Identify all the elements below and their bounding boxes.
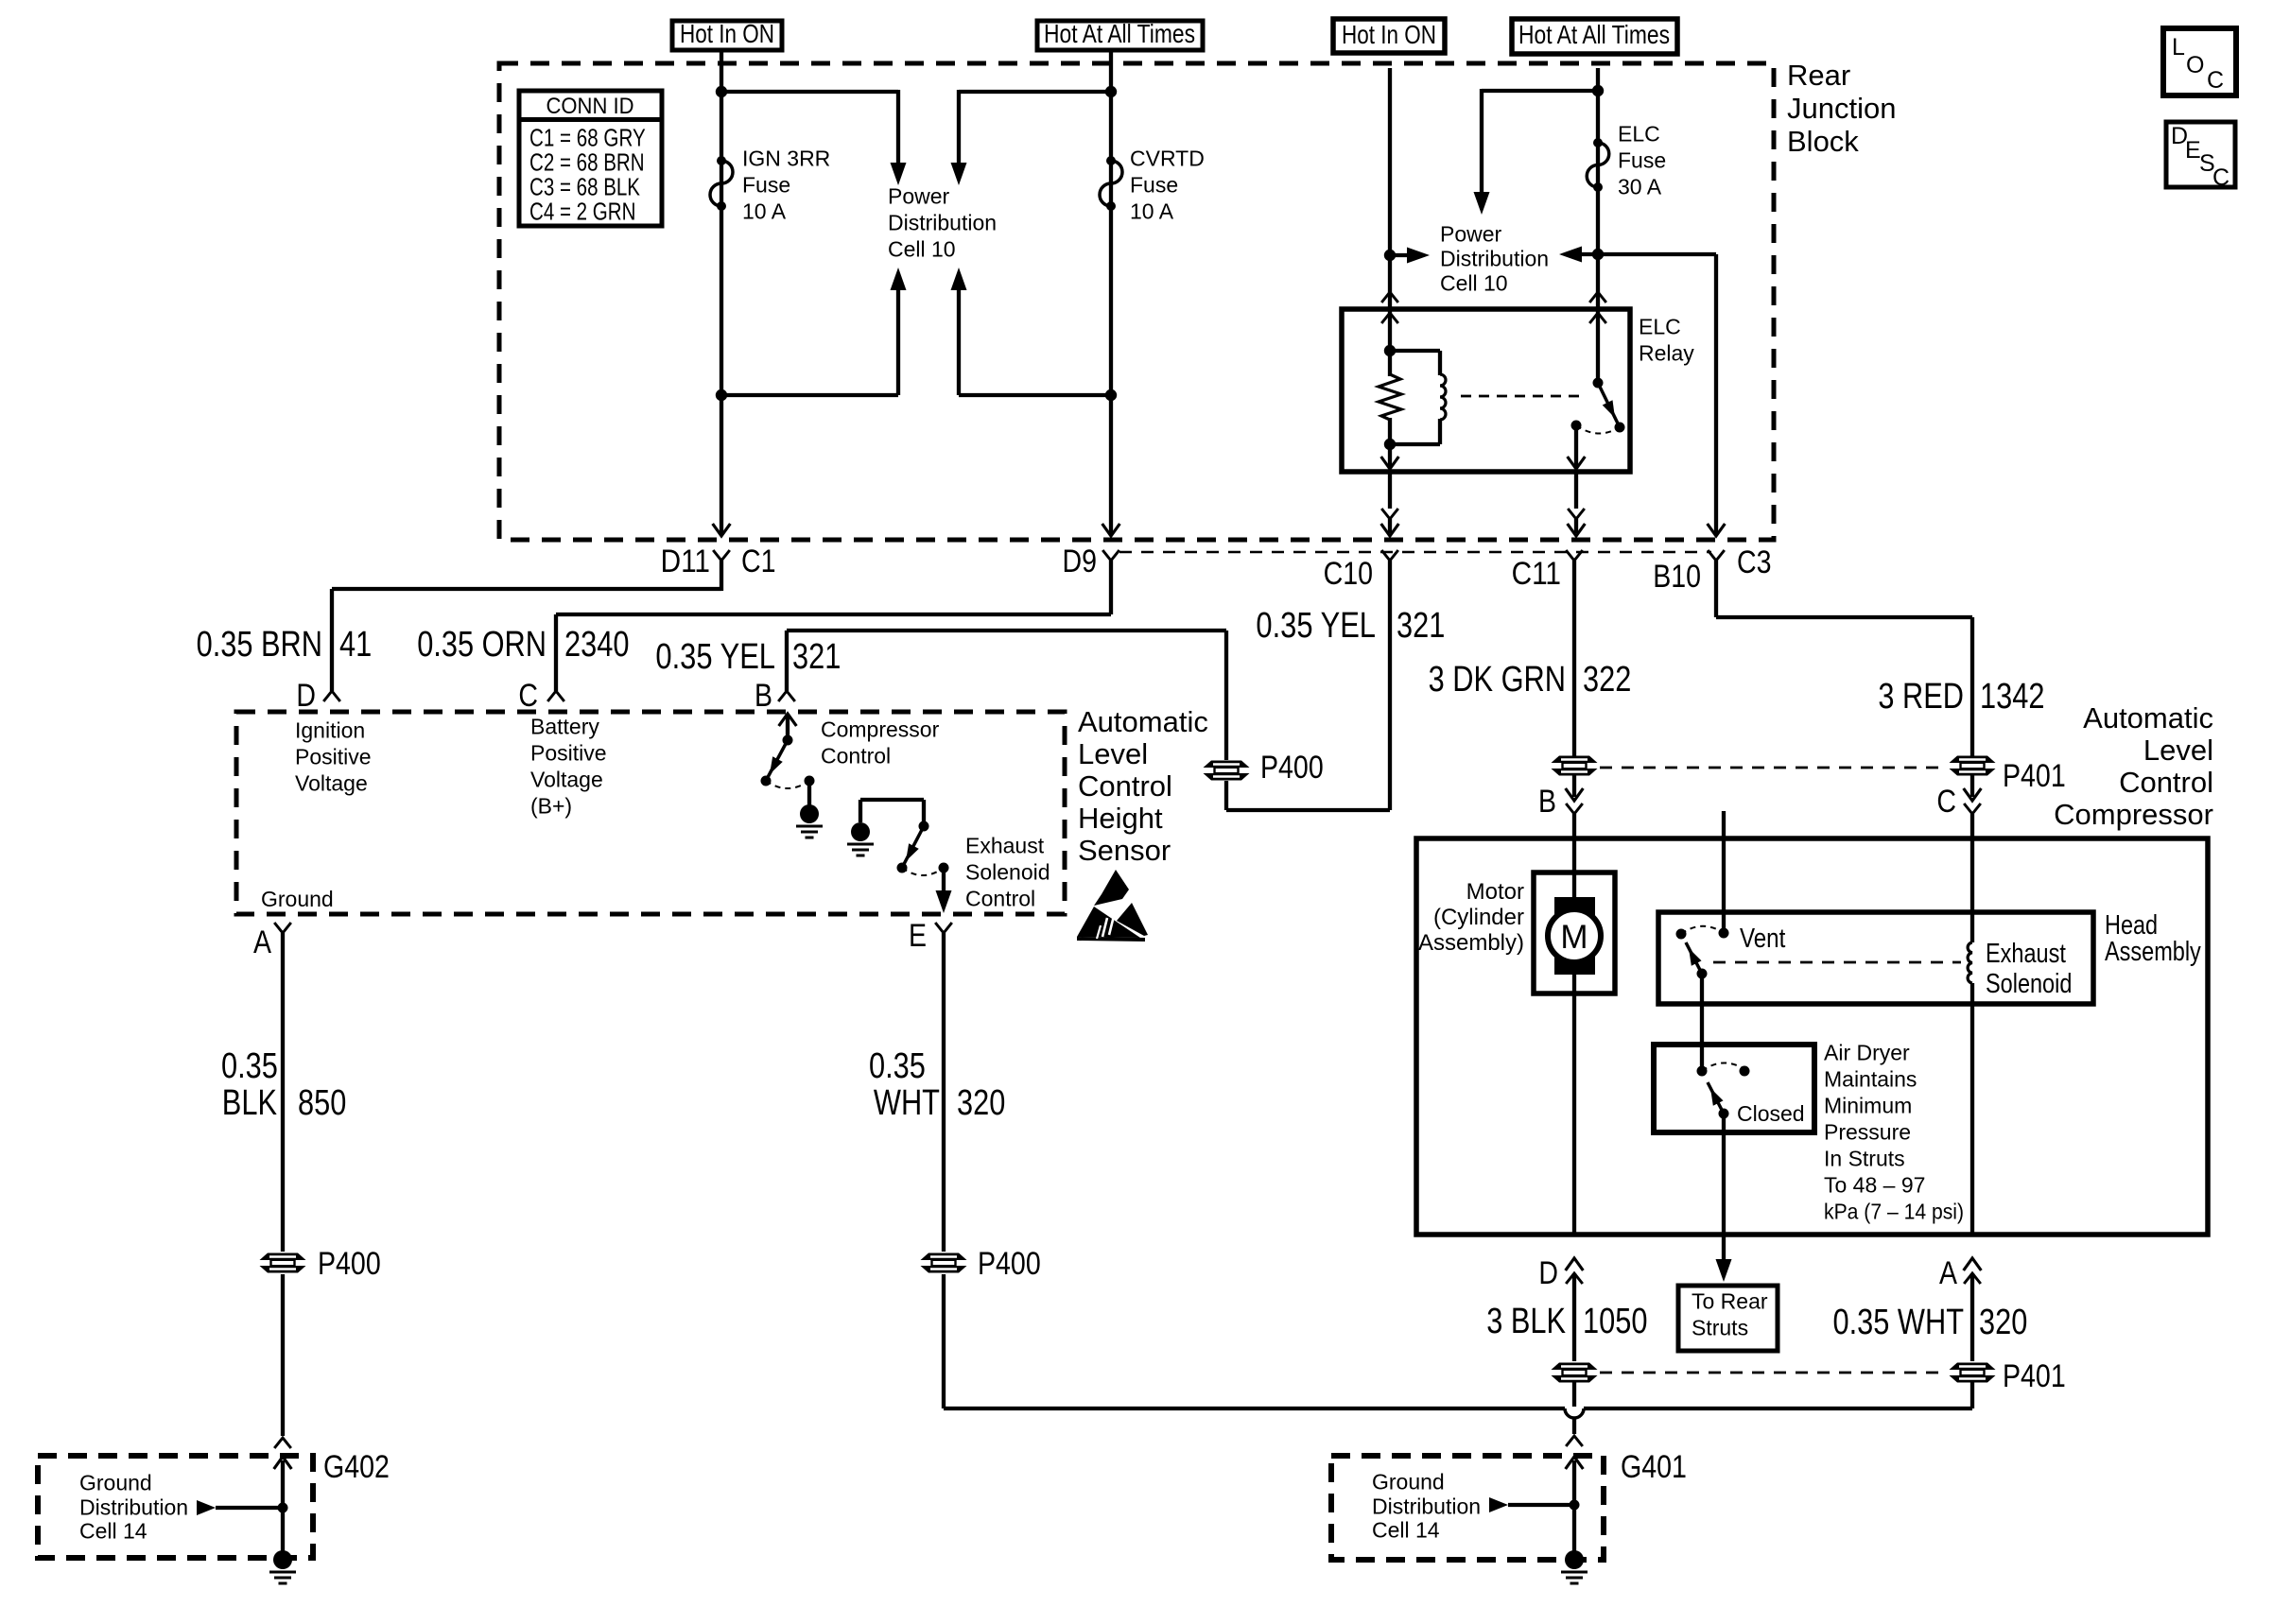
switch compressor control pivot dot <box>783 735 793 746</box>
svg-text:M: M <box>1560 919 1588 956</box>
junction dot at (1175,418) <box>1105 389 1117 401</box>
svg-text:(B+): (B+) <box>530 793 572 818</box>
svg-text:Control: Control <box>821 743 891 768</box>
svg-text:1342: 1342 <box>1980 677 2045 717</box>
svg-text:Hot At All Times: Hot At All Times <box>1044 19 1195 48</box>
junction dot relay bottom (1470,470) <box>1384 439 1396 450</box>
relay switch output wire with arrow <box>1574 425 1578 467</box>
svg-text:Exhaust: Exhaust <box>965 833 1045 857</box>
svg-text:C: C <box>518 678 538 714</box>
switch compressor control closed contact dot <box>805 776 815 786</box>
svg-text:0.35 BRN: 0.35 BRN <box>197 625 322 665</box>
wire DK GRN below P401 <box>1572 775 1576 797</box>
arrow up from Power Distribution return (x=1014) <box>951 268 967 290</box>
switch vent: contact dots <box>1719 928 1729 939</box>
dashed actuation link vent switch to solenoid <box>1713 961 1961 964</box>
wire BLK with hop over WHT run <box>1572 1382 1576 1407</box>
switch air dryer pivot dot <box>1697 1066 1708 1077</box>
svg-text:G401: G401 <box>1621 1449 1687 1485</box>
switch exhaust solenoid control pivot dot <box>919 821 929 832</box>
connector Y at sensor A <box>274 923 291 933</box>
wire Hot In ON right to ELC relay coil (x=1470) <box>1388 68 1392 309</box>
G401 connector arrow into ground box <box>1566 1457 1584 1469</box>
inline connector P400 on YEL wire <box>1204 761 1250 769</box>
svg-text:Cell 10: Cell 10 <box>1440 270 1508 295</box>
svg-text:Control: Control <box>965 886 1035 910</box>
G402 connector arrow into ground box <box>274 1457 292 1469</box>
svg-text:Block: Block <box>1787 125 1859 158</box>
connector Y at sensor E <box>935 923 952 933</box>
To Rear Struts box <box>1678 1286 1778 1351</box>
svg-text:0.35 YEL: 0.35 YEL <box>655 637 775 677</box>
junction dot at (1690,96) <box>1592 85 1604 96</box>
svg-text:Ground: Ground <box>1372 1469 1445 1494</box>
svg-text:Level: Level <box>2143 734 2213 767</box>
svg-text:Solenoid: Solenoid <box>1986 969 2072 999</box>
switch exhaust solenoid control output contact dot <box>939 863 949 873</box>
LOC box <box>2163 28 2236 95</box>
svg-text:To 48 – 97: To 48 – 97 <box>1824 1172 1925 1197</box>
svg-text:ELC: ELC <box>1618 121 1660 146</box>
svg-text:BLK: BLK <box>222 1083 277 1123</box>
svg-text:D: D <box>296 678 316 714</box>
svg-text:Fuse: Fuse <box>742 172 790 197</box>
svg-text:320: 320 <box>1979 1303 2027 1342</box>
wire return to IGN wire <box>721 393 898 397</box>
switch exhaust solenoid control blade end dot <box>897 863 908 873</box>
wire below resistor with arrow to box bottom <box>1388 418 1392 467</box>
svg-text:Compressor: Compressor <box>821 717 940 741</box>
svg-text:B: B <box>755 678 772 714</box>
svg-text:Power: Power <box>888 183 950 208</box>
svg-text:Ignition: Ignition <box>295 717 365 742</box>
dashed harness link P401 bottom <box>1600 1372 1948 1374</box>
dashed actuation link coil to switch <box>1461 395 1587 398</box>
svg-text:0.35: 0.35 <box>221 1046 278 1086</box>
arrow down into Power Distribution (x=950) <box>891 163 907 185</box>
wire 0.35 YEL 321 net sensor B to C10 <box>785 631 789 691</box>
wire A terminal to WHT junction <box>1970 1382 1974 1408</box>
svg-text:Distribution: Distribution <box>1372 1494 1481 1518</box>
switch exhaust solenoid control dashed arc <box>902 868 944 875</box>
svg-text:Struts: Struts <box>1692 1315 1748 1339</box>
wire vent line <box>1722 811 1726 933</box>
junction dot G402 <box>278 1503 288 1513</box>
svg-text:Minimum: Minimum <box>1824 1093 1912 1117</box>
svg-text:Cell 10: Cell 10 <box>888 236 956 261</box>
junction dot at (763,418) <box>716 389 727 401</box>
resistor relay coil-suppression zigzag <box>1379 374 1401 420</box>
svg-text:Rear: Rear <box>1787 59 1850 92</box>
svg-text:Control: Control <box>2119 766 2213 799</box>
svg-text:P401: P401 <box>2003 758 2066 794</box>
svg-text:kPa (7 – 14 psi): kPa (7 – 14 psi) <box>1824 1200 1964 1224</box>
svg-text:Vent: Vent <box>1740 924 1785 954</box>
connector Y at D9 <box>1102 550 1119 561</box>
svg-text:Air Dryer: Air Dryer <box>1824 1040 1910 1064</box>
ground (compressor control) <box>800 804 819 823</box>
svg-text:To Rear: To Rear <box>1692 1288 1768 1313</box>
wire contact to ground <box>807 781 811 806</box>
relay ELC box <box>1342 309 1630 472</box>
svg-text:Motor: Motor <box>1466 879 1524 905</box>
svg-text:Junction: Junction <box>1787 92 1896 125</box>
svg-text:Power: Power <box>1440 221 1502 246</box>
connector Y at C3 <box>1708 550 1725 561</box>
inline connector P401 on RED wire <box>1950 756 1996 764</box>
thin dashed connector face line D9 to C3 <box>1119 551 1711 554</box>
compressor D terminal arrow+chevron <box>1566 1258 1584 1270</box>
fuse IGN 3RR 10A <box>717 156 726 165</box>
svg-text:Assembly: Assembly <box>2105 937 2201 967</box>
svg-text:D: D <box>1538 1255 1558 1291</box>
arrow up from Power Distribution return (x=950) <box>891 268 907 290</box>
ground distribution dashed box G402 <box>38 1456 313 1558</box>
svg-text:0.35 WHT: 0.35 WHT <box>1833 1303 1965 1342</box>
wire branch to down-arrow at x=1567 <box>1482 89 1598 93</box>
svg-text:321: 321 <box>1397 606 1445 646</box>
inline connector P401 on WHT wire (bottom) <box>1950 1363 1996 1371</box>
svg-text:3 BLK: 3 BLK <box>1486 1302 1566 1341</box>
Automatic Level Control Height Sensor dashed box <box>236 712 1065 914</box>
relay output connector chevrons (x=1470) <box>1381 509 1398 519</box>
wire ground link to switch pivot <box>859 800 862 822</box>
label box Hot In ON (left) <box>672 21 782 50</box>
wire ELC fuse to C3 drop <box>1598 252 1716 256</box>
svg-text:CONN ID: CONN ID <box>547 94 634 119</box>
arrow left into Power Distribution text <box>1576 252 1598 256</box>
svg-text:Height: Height <box>1078 802 1163 835</box>
arrow right into Power Distribution text <box>1390 253 1413 257</box>
svg-text:C: C <box>1936 784 1956 820</box>
wire CVRTD branch to right arrow <box>957 90 961 164</box>
svg-text:Battery: Battery <box>530 714 599 738</box>
svg-text:Compressor: Compressor <box>2054 798 2213 831</box>
arrow ground distribution feed (G402) <box>197 1500 216 1515</box>
fuse CVRTD 10A <box>1106 156 1116 165</box>
svg-text:C4 = 2 GRN: C4 = 2 GRN <box>529 198 635 226</box>
svg-text:Fuse: Fuse <box>1618 147 1666 172</box>
Rear Junction Block dashed border <box>499 63 1774 540</box>
connector chevrons at relay boundary (x=1470) <box>1381 292 1398 302</box>
svg-text:Ground: Ground <box>261 887 334 911</box>
svg-text:A: A <box>253 924 271 960</box>
svg-text:Cell 14: Cell 14 <box>79 1518 147 1543</box>
relay coil-side wire <box>1388 309 1392 376</box>
svg-text:(Cylinder: (Cylinder <box>1433 905 1524 930</box>
switch air dryer dashed arc <box>1702 1063 1744 1071</box>
svg-text:P401: P401 <box>2003 1358 2066 1394</box>
wire motor to compressor D terminal <box>1572 974 1576 1235</box>
wire solenoid to compressor A terminal <box>1970 983 1974 1235</box>
label box Hot At All Times (left) <box>1037 21 1203 50</box>
svg-text:2340: 2340 <box>564 625 630 665</box>
svg-text:Hot In ON: Hot In ON <box>1342 20 1436 49</box>
relay output connector chevrons (x=1667) <box>1568 509 1585 519</box>
fuse ELC 30A <box>1593 138 1603 147</box>
wire air dryer to rear struts arrow <box>1722 1114 1726 1259</box>
switch air dryer closed contact dot <box>1719 1109 1729 1119</box>
arrow down into Power Distribution (x=1014) <box>951 163 967 185</box>
switch vent dashed arc <box>1681 926 1724 934</box>
svg-text:P400: P400 <box>1260 750 1324 786</box>
Automatic Level Control Compressor box <box>1416 838 2208 1235</box>
label box Hot At All Times (right) <box>1512 19 1677 54</box>
svg-text:Voltage: Voltage <box>530 767 603 791</box>
svg-text:D9: D9 <box>1063 544 1098 579</box>
junction dot at (1470,270) <box>1384 250 1396 261</box>
svg-text:Assembly): Assembly) <box>1418 930 1524 956</box>
air dryer pressure switch box <box>1654 1045 1814 1132</box>
svg-text:C1: C1 <box>741 544 776 579</box>
switch compressor control dashed arc <box>766 781 809 788</box>
wire Hot At All Times right to ELC fuse (x=1690) <box>1596 68 1600 309</box>
svg-text:C3: C3 <box>1737 544 1772 580</box>
solenoid exhaust coil <box>1968 942 1972 983</box>
arrow ground distribution feed (G401) <box>1489 1497 1508 1512</box>
inline connector P401 on DK GRN wire <box>1552 756 1598 764</box>
svg-text:Automatic: Automatic <box>2083 701 2213 734</box>
connector Y at C10 <box>1381 550 1398 561</box>
connector Y at C11 <box>1566 550 1583 561</box>
switch compressor control blade end dot <box>761 776 772 786</box>
switch air dryer blade with arrow <box>1708 1082 1724 1114</box>
relay switch blade end dot <box>1615 423 1625 433</box>
junction dot relay top (1470,371) <box>1384 345 1396 356</box>
head assembly box <box>1658 912 2093 1004</box>
svg-text:Distribution: Distribution <box>79 1494 188 1519</box>
junction dot G401 <box>1570 1500 1580 1511</box>
svg-text:Positive: Positive <box>295 744 372 769</box>
svg-text:L: L <box>2172 34 2185 60</box>
svg-text:Fuse: Fuse <box>1130 172 1178 197</box>
relay switch input wire <box>1596 309 1600 383</box>
junction dot at (1690,269) <box>1592 249 1604 260</box>
switch exhaust solenoid control blade with arrow <box>902 826 924 868</box>
svg-text:C: C <box>2207 67 2224 94</box>
svg-text:10 A: 10 A <box>742 199 787 223</box>
svg-text:1050: 1050 <box>1583 1302 1648 1341</box>
svg-text:WHT: WHT <box>874 1083 940 1123</box>
CONN ID table <box>519 91 662 226</box>
svg-text:E: E <box>909 918 927 954</box>
svg-text:321: 321 <box>792 637 841 677</box>
svg-text:320: 320 <box>957 1083 1005 1123</box>
svg-text:0.35 YEL: 0.35 YEL <box>1256 606 1376 646</box>
wire to left power-distribution arrow <box>721 90 898 94</box>
junction dot at (763,97) <box>716 86 727 97</box>
svg-text:Exhaust: Exhaust <box>1986 939 2066 969</box>
compressor A terminal arrow+chevron <box>1964 1258 1982 1270</box>
motor M1 (cylinder assembly) <box>1534 872 1615 993</box>
svg-text:850: 850 <box>298 1083 346 1123</box>
relay switch dashed travel arc <box>1576 425 1620 434</box>
relay switch common dot <box>1571 421 1582 431</box>
svg-text:3 DK GRN: 3 DK GRN <box>1429 660 1566 700</box>
inline connector P401 on BLK wire (bottom) <box>1552 1363 1598 1371</box>
svg-text:0.35 ORN: 0.35 ORN <box>417 625 547 665</box>
svg-text:C10: C10 <box>1324 556 1373 592</box>
svg-text:Solenoid: Solenoid <box>965 859 1050 884</box>
svg-text:A: A <box>1939 1255 1957 1291</box>
relay switch pivot dot <box>1593 378 1604 389</box>
switch vent pivot dot <box>1697 969 1708 979</box>
svg-text:IGN 3RR: IGN 3RR <box>742 146 830 170</box>
switch compressor control blade with arrow <box>766 740 788 781</box>
compressor C terminal arrow+chevron <box>1964 788 1982 801</box>
svg-text:ELC: ELC <box>1639 314 1681 338</box>
svg-text:Sensor: Sensor <box>1078 834 1171 867</box>
wire 0.35 BRN 41 net D11 to sensor D <box>332 587 721 591</box>
svg-text:10 A: 10 A <box>1130 199 1174 223</box>
switch compressor control: input arrow from B <box>779 714 797 726</box>
dashed harness link P401 top <box>1600 767 1948 769</box>
svg-text:In Struts: In Struts <box>1824 1146 1905 1170</box>
ESD sensitive device symbol <box>1077 907 1140 938</box>
ground G402 <box>273 1550 292 1569</box>
connector Y at D11/C1 <box>713 550 730 561</box>
svg-text:D11: D11 <box>661 544 710 579</box>
switch vent blade with arrow <box>1686 942 1702 974</box>
switch air dryer open contact dot <box>1740 1066 1750 1077</box>
compressor B terminal arrow+chevron <box>1566 788 1584 801</box>
svg-text:B10: B10 <box>1653 559 1701 595</box>
svg-text:Hot At All Times: Hot At All Times <box>1518 20 1670 49</box>
wire RED below P401 <box>1970 775 1974 797</box>
svg-text:Ground: Ground <box>79 1470 152 1494</box>
wire 0.35 ORN 2340 net D9 to sensor C <box>556 613 1111 616</box>
svg-text:Distribution: Distribution <box>1440 246 1549 270</box>
svg-text:0.35: 0.35 <box>869 1046 926 1086</box>
wire 3 RED 1342 net C3 to compressor C <box>1716 615 1972 619</box>
svg-text:Positive: Positive <box>530 740 607 765</box>
wire Hot In ON to D11 (x=763) <box>720 50 723 535</box>
arrow down into Power Distribution right text <box>1474 192 1490 215</box>
ground G401 <box>1565 1550 1584 1569</box>
wire return to CVRTD wire <box>959 393 1111 397</box>
relay coil L1 <box>1390 349 1440 353</box>
svg-text:Voltage: Voltage <box>295 770 368 795</box>
svg-text:O: O <box>2186 52 2204 78</box>
svg-text:G402: G402 <box>323 1449 390 1485</box>
svg-text:B: B <box>1538 784 1556 820</box>
wire WHT 320 run to compressor A <box>942 1274 946 1408</box>
inline connector P400 on WHT wire <box>921 1253 967 1261</box>
svg-text:Distribution: Distribution <box>888 210 997 234</box>
svg-text:Cell 14: Cell 14 <box>1372 1517 1440 1542</box>
svg-text:P400: P400 <box>978 1246 1041 1282</box>
svg-text:C: C <box>2212 164 2230 191</box>
svg-text:3 RED: 3 RED <box>1878 677 1964 717</box>
ground (exhaust solenoid control) <box>851 822 870 841</box>
svg-text:41: 41 <box>339 625 372 665</box>
wire BLK to G402 <box>281 1274 285 1436</box>
wire Hot At All Times to D9 (x=1175) <box>1109 50 1113 535</box>
svg-text:Relay: Relay <box>1639 340 1694 365</box>
svg-text:Maintains: Maintains <box>1824 1066 1917 1091</box>
connector chevrons at relay boundary (x=1690) <box>1589 292 1606 302</box>
svg-text:C11: C11 <box>1512 556 1561 592</box>
svg-text:322: 322 <box>1583 660 1631 700</box>
svg-text:Closed: Closed <box>1737 1101 1805 1126</box>
svg-text:Control: Control <box>1078 769 1172 803</box>
svg-text:CVRTD: CVRTD <box>1130 146 1205 170</box>
junction dot at (1175,97) <box>1105 86 1117 97</box>
label box Hot In ON (right) <box>1333 19 1445 53</box>
svg-text:Hot In ON: Hot In ON <box>680 19 774 48</box>
wire exhaust solenoid control output arrow to E <box>942 868 946 892</box>
svg-text:Level: Level <box>1078 737 1148 770</box>
DESC box <box>2166 122 2235 187</box>
inline connector P400 on BLK wire <box>260 1253 306 1261</box>
svg-text:Pressure: Pressure <box>1824 1119 1911 1144</box>
ground distribution dashed box G401 <box>1331 1456 1604 1560</box>
svg-text:Automatic: Automatic <box>1078 705 1208 738</box>
svg-text:P400: P400 <box>318 1246 381 1282</box>
relay switch blade <box>1598 383 1620 427</box>
svg-text:30 A: 30 A <box>1618 174 1662 199</box>
wire vent switch to air dryer switch <box>1700 974 1704 1071</box>
